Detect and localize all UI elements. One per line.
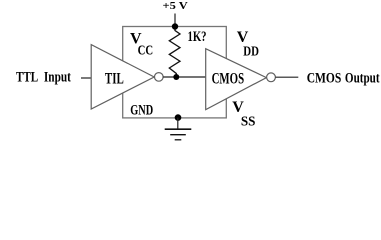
svg-text:DD: DD	[243, 43, 259, 58]
label TTL Input	[16, 69, 71, 85]
label GND	[130, 102, 153, 118]
svg-text:SS: SS	[241, 113, 256, 128]
ground symbol	[165, 129, 192, 140]
junction dot bottom (box GND to ground)	[175, 114, 182, 121]
wire input to TIL gate	[81, 77, 91, 79]
inverter U1 output bubble	[155, 73, 164, 82]
svg-text:CMOS: CMOS	[212, 71, 245, 88]
inverter U2 output bubble	[267, 73, 276, 82]
wire +5V supply to box top	[174, 14, 176, 27]
wire output	[276, 76, 299, 78]
junction dot middle (resistor to wire)	[173, 74, 179, 80]
svg-text:Output: Output	[345, 70, 380, 86]
inverter U1 TIL triangle	[91, 45, 154, 109]
svg-text:CC: CC	[138, 43, 154, 58]
svg-text:CMOS: CMOS	[307, 70, 342, 86]
box converter outline	[123, 27, 227, 118]
svg-text:1K?: 1K?	[188, 29, 207, 45]
label VCC	[130, 31, 153, 58]
inverter U2 CMOS triangle	[206, 49, 267, 110]
svg-text:TTL: TTL	[16, 69, 38, 85]
label VDD	[237, 29, 260, 58]
label 1K? resistor value	[188, 29, 207, 45]
svg-text:GND: GND	[130, 102, 153, 118]
wire middle (TIL output to CMOS input)	[163, 76, 206, 78]
label TIL	[105, 70, 124, 87]
label VSS	[232, 99, 255, 128]
node +5V label	[163, 0, 188, 12]
label CMOS	[212, 71, 245, 88]
label CMOS Output	[307, 70, 380, 86]
svg-text:TIL: TIL	[105, 70, 124, 87]
junction dot top (+5V to box and resistor)	[172, 23, 178, 29]
resistor R1	[169, 27, 180, 78]
wire ground stem	[177, 118, 179, 129]
svg-text:+5 V: +5 V	[163, 0, 188, 12]
svg-text:Input: Input	[44, 69, 71, 85]
